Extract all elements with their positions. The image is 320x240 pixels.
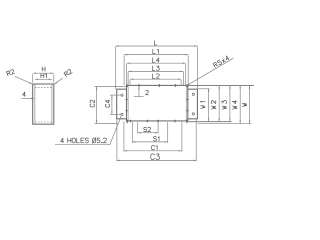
bottom edge tab 2 — [147, 120, 149, 122]
right edge tick lower — [186, 110, 189, 112]
dimension W3 — [229, 85, 231, 121]
bottom corner lip right — [186, 121, 188, 123]
extension line right of flange top — [198, 88, 210, 90]
dimension 2 base line — [134, 96, 144, 98]
dimension L extension left — [115, 47, 117, 89]
dimension W2 — [218, 85, 220, 121]
left edge tick lower — [125, 110, 128, 112]
leader R5x4 — [186, 58, 233, 86]
side view hidden line bottom — [35, 121, 52, 123]
front view left wall inner line — [127, 86, 129, 121]
dimension W4 — [239, 85, 241, 123]
front view left flange — [117, 89, 127, 119]
dimension H extension left — [32, 74, 34, 83]
dimension C4 — [111, 95, 113, 114]
extension line right of bottom edge — [188, 121, 231, 123]
dimension C2 extension top — [95, 85, 127, 87]
bottom edge tab 3 — [157, 120, 159, 122]
extension line right of top edge — [188, 84, 254, 86]
front view main body — [127, 85, 188, 121]
dimension 2 label — [146, 90, 149, 94]
dimension C4 connector bottom — [110, 113, 121, 115]
hole top-left — [121, 94, 123, 96]
dimension L3 — [128, 70, 183, 72]
dimension C3 extension left — [116, 120, 118, 162]
note underline — [55, 144, 110, 146]
dimension H — [33, 72, 54, 74]
dimension W1 — [208, 89, 210, 122]
dimension C2 extension bottom — [95, 122, 118, 124]
dimension S2 extension left — [137, 122, 139, 134]
dimension L4 — [127, 62, 186, 64]
leader R2 left — [15, 76, 33, 84]
dimension C3 — [117, 159, 196, 161]
dimension S1 extension right — [167, 122, 169, 143]
dimension L1 extension right — [187, 55, 189, 85]
leader to hole — [110, 116, 121, 145]
top edge tab 3 — [175, 84, 177, 87]
dimension H1 — [35, 78, 52, 80]
dimension H extension right — [53, 74, 55, 83]
dimension L1 extension left — [123, 55, 125, 85]
dimension S1 — [132, 141, 167, 143]
left edge tick upper — [125, 99, 128, 101]
bottom edge tab 1 — [130, 120, 132, 122]
corner mark bottom-right — [186, 120, 188, 123]
top edge tab 2 — [158, 84, 160, 87]
radius note R5x4 — [213, 55, 229, 67]
dimension L2 extension left — [129, 80, 131, 85]
front view right flange — [188, 89, 198, 119]
corner mark top-left — [126, 84, 128, 87]
dimension C1 — [124, 150, 182, 152]
dimension L3 extension left — [127, 72, 129, 85]
corner mark top-right — [186, 84, 188, 87]
dimension L extension right — [197, 47, 199, 89]
radius label R2 left — [7, 69, 15, 76]
dimension C2 — [96, 86, 98, 123]
corner mark bottom-left — [126, 120, 128, 123]
dimension L2 extension right — [180, 80, 182, 85]
side view hidden line top — [35, 86, 52, 88]
dimension W — [249, 85, 251, 123]
bottom corner lip left — [126, 121, 128, 123]
dimension C3 extension right — [195, 120, 197, 162]
hole bottom-left — [121, 113, 123, 115]
extension line right of bottom lip — [198, 123, 252, 125]
bottom edge tab 4 — [174, 120, 176, 122]
front view right wall inner line — [185, 86, 187, 121]
dimension L3 extension right — [183, 72, 185, 85]
dimension C1 extension right — [181, 122, 183, 152]
hole top-right — [192, 93, 194, 95]
dimension C1 extension left — [123, 122, 125, 152]
dimension 2 tick — [138, 86, 140, 97]
dimension L1 — [124, 54, 188, 56]
dimension L4 extension right — [185, 64, 187, 85]
side view outer profile — [33, 84, 54, 124]
dimension L2 — [130, 78, 181, 80]
dimension S1 extension left — [131, 122, 133, 143]
side view left wall inner line — [34, 84, 36, 123]
note 4 HOLES 5.2 dia — [61, 138, 107, 144]
top edge tab 1 — [138, 84, 140, 87]
right edge tick upper — [186, 99, 189, 101]
dimension S2 extension right — [157, 122, 159, 134]
side view right wall inner line — [51, 84, 53, 123]
dimension S2 — [138, 132, 158, 134]
dimension L4 extension left — [126, 64, 128, 85]
dimension C4 connector top — [110, 94, 121, 96]
hole bottom-right — [192, 113, 194, 115]
leader R2 right — [54, 78, 62, 84]
radius label R2 right — [64, 69, 72, 77]
dimension L — [116, 45, 198, 47]
thickness dimension 4 — [23, 92, 26, 96]
